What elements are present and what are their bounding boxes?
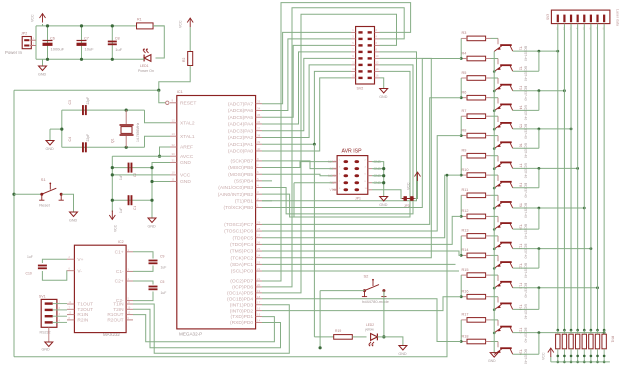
- svg-text:GND: GND: [38, 73, 47, 77]
- svg-text:T3: T3: [519, 86, 523, 90]
- svg-text:BC337-40: BC337-40: [524, 105, 528, 120]
- svg-text:C8: C8: [115, 37, 120, 41]
- svg-text:22pF: 22pF: [86, 134, 90, 142]
- svg-text:T9: T9: [519, 203, 523, 207]
- svg-text:C5: C5: [160, 280, 164, 284]
- svg-text:BC337-40: BC337-40: [524, 244, 528, 259]
- svg-text:RESET: RESET: [180, 100, 196, 106]
- svg-text:C1+: C1+: [115, 249, 124, 255]
- svg-text:(TCK)PC2: (TCK)PC2: [231, 255, 254, 261]
- svg-text:R1IN: R1IN: [77, 312, 88, 318]
- svg-text:C1-: C1-: [116, 269, 124, 275]
- svg-text:BC337-40: BC337-40: [524, 124, 528, 139]
- svg-text:(AIN0/INT2)PB2: (AIN0/INT2)PB2: [218, 192, 254, 198]
- svg-text:T7: T7: [519, 163, 523, 167]
- svg-text:R9: R9: [462, 149, 467, 153]
- svg-text:BC337-40: BC337-40: [524, 349, 528, 364]
- svg-text:(OC2)PD7: (OC2)PD7: [230, 279, 253, 285]
- svg-text:GND: GND: [180, 160, 191, 166]
- svg-text:BC337-40: BC337-40: [524, 304, 528, 319]
- svg-text:LED1: LED1: [140, 64, 149, 68]
- svg-text:R7: R7: [462, 109, 467, 113]
- svg-text:(SCK)PB7: (SCK)PB7: [231, 159, 254, 165]
- svg-text:26: 26: [257, 240, 261, 244]
- svg-text:Reset: Reset: [39, 203, 50, 208]
- svg-text:R12: R12: [462, 209, 469, 213]
- svg-text:RN1: RN1: [611, 336, 615, 343]
- svg-text:SV1: SV1: [39, 295, 46, 299]
- svg-text:R13: R13: [462, 229, 469, 233]
- svg-text:1uF: 1uF: [27, 255, 33, 259]
- svg-text:JP1: JP1: [355, 197, 361, 201]
- svg-text:VCC: VCC: [407, 182, 411, 190]
- svg-text:C7: C7: [84, 37, 89, 41]
- svg-text:Q1: Q1: [111, 138, 115, 143]
- svg-text:36: 36: [257, 120, 261, 124]
- svg-text:(OC1A)PD5: (OC1A)PD5: [227, 290, 253, 296]
- svg-text:BC337-40: BC337-40: [524, 143, 528, 158]
- svg-text:MEGA32-P: MEGA32-P: [179, 331, 202, 336]
- svg-text:T2: T2: [519, 66, 523, 70]
- svg-text:R17: R17: [462, 313, 469, 317]
- svg-text:1uF: 1uF: [161, 291, 167, 295]
- svg-text:(ICP)PD6: (ICP)PD6: [232, 285, 253, 291]
- svg-text:R16: R16: [462, 290, 469, 294]
- svg-text:(TDO)PC4: (TDO)PC4: [230, 242, 253, 248]
- svg-text:(ADC2)PA2: (ADC2)PA2: [228, 135, 253, 141]
- svg-text:VCC: VCC: [179, 20, 183, 28]
- svg-text:(ADC5)PA5: (ADC5)PA5: [228, 115, 253, 121]
- svg-text:10: 10: [172, 171, 176, 175]
- svg-text:BC337-40: BC337-40: [524, 263, 528, 278]
- svg-text:(ADC4)PA4: (ADC4)PA4: [228, 122, 253, 128]
- svg-text:C10: C10: [26, 272, 32, 276]
- svg-text:V+: V+: [77, 257, 83, 263]
- svg-text:BC337-40: BC337-40: [524, 66, 528, 81]
- svg-text:(TOSC2)PC7: (TOSC2)PC7: [224, 222, 253, 228]
- svg-text:BC337-40: BC337-40: [524, 224, 528, 239]
- svg-text:GND: GND: [180, 179, 191, 185]
- svg-text:AVCC: AVCC: [180, 154, 194, 160]
- svg-text:R2: R2: [182, 58, 186, 62]
- svg-text:R1OUT: R1OUT: [107, 312, 123, 318]
- svg-text:(SS)PB4: (SS)PB4: [234, 178, 253, 184]
- svg-text:IC1: IC1: [177, 90, 183, 94]
- svg-text:GND: GND: [398, 352, 407, 356]
- svg-text:32: 32: [172, 143, 176, 147]
- svg-text:S2: S2: [364, 274, 370, 279]
- svg-text:15: 15: [257, 313, 261, 317]
- svg-text:BC337-40: BC337-40: [524, 328, 528, 343]
- svg-text:(OC1B)PD4: (OC1B)PD4: [227, 296, 253, 302]
- svg-text:23: 23: [257, 260, 261, 264]
- svg-text:(T1)PB1: (T1)PB1: [235, 198, 253, 204]
- svg-text:(RXD)PD0: (RXD)PD0: [230, 320, 253, 326]
- svg-text:16: 16: [257, 307, 261, 311]
- svg-text:27: 27: [257, 234, 261, 238]
- svg-text:T8: T8: [519, 183, 523, 187]
- svg-text:BC337-40: BC337-40: [524, 283, 528, 298]
- svg-text:12: 12: [172, 119, 176, 123]
- svg-text:T1IN: T1IN: [113, 302, 124, 308]
- svg-text:R6: R6: [462, 91, 467, 95]
- svg-text:17: 17: [257, 301, 261, 305]
- svg-text:S1: S1: [41, 177, 47, 182]
- svg-text:39: 39: [257, 140, 261, 144]
- svg-text:22pF: 22pF: [86, 97, 90, 105]
- svg-text:(SCL)PC0: (SCL)PC0: [231, 269, 254, 275]
- svg-text:SV3: SV3: [546, 14, 550, 20]
- svg-text:Laser data: Laser data: [616, 9, 620, 26]
- svg-text:VCC: VCC: [180, 173, 191, 179]
- svg-text:AVR ISP: AVR ISP: [342, 149, 363, 155]
- svg-text:31: 31: [172, 158, 176, 162]
- svg-text:(ADC7)PA7: (ADC7)PA7: [228, 101, 253, 107]
- svg-text:(MOSI)PB5: (MOSI)PB5: [228, 172, 253, 178]
- svg-text:R4: R4: [462, 51, 467, 55]
- svg-text:IC2: IC2: [118, 240, 124, 244]
- svg-text:Power In: Power In: [5, 50, 23, 55]
- svg-text:R10: R10: [462, 168, 469, 172]
- svg-text:22: 22: [257, 267, 261, 271]
- svg-text:T5: T5: [519, 124, 523, 128]
- svg-text:25: 25: [257, 247, 261, 251]
- svg-text:VCC: VCC: [114, 224, 118, 232]
- svg-text:BC337-40: BC337-40: [524, 163, 528, 178]
- svg-text:GND: GND: [379, 95, 388, 99]
- svg-text:BC337-40: BC337-40: [524, 183, 528, 198]
- svg-text:18: 18: [257, 295, 261, 299]
- svg-text:T2OUT: T2OUT: [77, 307, 93, 313]
- svg-text:40: 40: [257, 147, 261, 151]
- svg-text:34: 34: [257, 106, 261, 110]
- svg-text:(TMS)PC3: (TMS)PC3: [230, 249, 253, 255]
- svg-text:GND: GND: [46, 147, 55, 151]
- svg-text:GND: GND: [69, 219, 78, 223]
- svg-text:T4: T4: [519, 105, 523, 109]
- svg-text:(SDA)PC1: (SDA)PC1: [230, 262, 253, 268]
- svg-text:(INT0)PD2: (INT0)PD2: [230, 308, 254, 314]
- svg-text:28: 28: [257, 227, 261, 231]
- svg-text:33: 33: [257, 100, 261, 104]
- svg-text:(ADC3)PA3: (ADC3)PA3: [228, 128, 253, 134]
- svg-text:SV2: SV2: [357, 87, 364, 91]
- svg-text:C3: C3: [68, 100, 72, 104]
- svg-text:R1: R1: [137, 18, 142, 22]
- svg-text:29: 29: [257, 220, 261, 224]
- svg-text:(TOSC1)PC6: (TOSC1)PC6: [224, 229, 253, 235]
- svg-text:T6: T6: [519, 143, 523, 147]
- svg-text:XTAL2: XTAL2: [180, 120, 195, 126]
- svg-text:C1: C1: [133, 206, 137, 210]
- svg-text:GND: GND: [42, 348, 51, 352]
- svg-text:XTAL1: XTAL1: [180, 134, 195, 140]
- svg-text:(ADC0)PA0: (ADC0)PA0: [228, 149, 253, 155]
- svg-text:C6: C6: [50, 37, 55, 41]
- svg-text:10uF: 10uF: [85, 47, 95, 52]
- svg-text:38: 38: [257, 133, 261, 137]
- svg-text:(AIN1/OC0)PB3: (AIN1/OC0)PB3: [218, 185, 253, 191]
- svg-text:hd44780-mode: hd44780-mode: [362, 299, 390, 304]
- svg-text:(INT1)PD3: (INT1)PD3: [230, 302, 254, 308]
- svg-text:(ADC6)PA6: (ADC6)PA6: [228, 108, 253, 114]
- svg-text:VCC: VCC: [542, 352, 546, 360]
- svg-text:T2IN: T2IN: [113, 307, 124, 313]
- svg-text:13: 13: [172, 132, 176, 136]
- svg-text:V-: V-: [77, 268, 82, 274]
- svg-text:(ADC1)PA1: (ADC1)PA1: [228, 142, 253, 148]
- svg-text:19: 19: [257, 289, 261, 293]
- svg-text:1uF: 1uF: [119, 207, 123, 213]
- svg-text:(MISO)PB6: (MISO)PB6: [228, 165, 253, 171]
- svg-text:GND: GND: [148, 225, 157, 229]
- svg-text:R14: R14: [462, 248, 469, 252]
- svg-text:(T0/XCK)PB0: (T0/XCK)PB0: [223, 205, 253, 211]
- svg-text:T1OUT: T1OUT: [77, 302, 93, 308]
- svg-text:R18: R18: [462, 334, 469, 338]
- svg-text:1uF: 1uF: [161, 266, 167, 270]
- svg-text:11: 11: [172, 177, 175, 181]
- svg-text:C2+: C2+: [115, 279, 124, 285]
- svg-text:1000uF: 1000uF: [51, 47, 65, 52]
- svg-text:20: 20: [257, 283, 261, 287]
- svg-text:T1: T1: [519, 46, 523, 50]
- svg-text:R2IN: R2IN: [77, 318, 88, 324]
- svg-text:R5: R5: [462, 71, 467, 75]
- svg-text:Power On: Power On: [138, 69, 154, 73]
- svg-text:AREF: AREF: [180, 145, 193, 151]
- svg-text:30: 30: [172, 152, 176, 156]
- svg-text:37: 37: [257, 127, 261, 131]
- svg-text:BC337-40: BC337-40: [524, 203, 528, 218]
- svg-text:R19: R19: [335, 329, 341, 333]
- svg-text:VCC: VCC: [31, 14, 35, 22]
- svg-text:35: 35: [257, 113, 261, 117]
- svg-text:yellow: yellow: [365, 328, 375, 332]
- svg-text:R11: R11: [462, 188, 469, 192]
- svg-text:GND: GND: [488, 359, 496, 363]
- svg-text:BC337-40: BC337-40: [524, 46, 528, 61]
- svg-text:GND: GND: [379, 203, 388, 207]
- svg-text:14: 14: [257, 319, 261, 323]
- svg-text:21: 21: [257, 277, 261, 281]
- svg-text:R3: R3: [462, 31, 467, 35]
- svg-text:14.7456MHz: 14.7456MHz: [136, 122, 140, 142]
- svg-text:LED2: LED2: [366, 323, 374, 327]
- svg-text:R2OUT: R2OUT: [107, 318, 123, 324]
- svg-text:R15: R15: [462, 268, 469, 272]
- svg-text:1uF: 1uF: [115, 47, 122, 52]
- svg-text:(TDI)PC5: (TDI)PC5: [232, 235, 253, 241]
- svg-text:C9: C9: [160, 255, 164, 259]
- svg-text:C4: C4: [68, 137, 72, 141]
- svg-text:BC337-40: BC337-40: [524, 86, 528, 101]
- svg-text:(TXD)PD1: (TXD)PD1: [231, 314, 254, 320]
- svg-text:JP2: JP2: [21, 32, 27, 36]
- svg-text:R8: R8: [462, 128, 467, 132]
- svg-text:MAX232: MAX232: [103, 332, 120, 337]
- svg-text:24: 24: [257, 254, 261, 258]
